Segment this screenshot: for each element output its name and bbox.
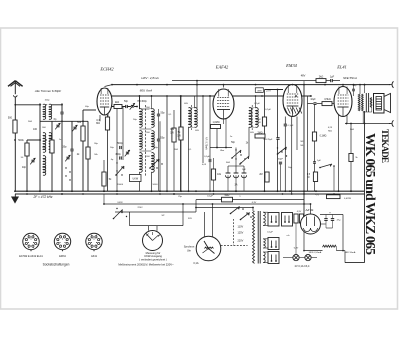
svg-text:EM34: EM34 (285, 63, 298, 68)
svg-text:6,3V: 6,3V (252, 202, 257, 204)
svg-text:1μF: 1μF (242, 169, 246, 171)
svg-text:20000: 20000 (117, 184, 124, 186)
svg-text:0,5kΩ: 0,5kΩ (324, 98, 331, 101)
svg-text:M: M (308, 177, 310, 179)
svg-text:1μF: 1μF (330, 76, 335, 79)
svg-text:-7V: -7V (315, 192, 319, 196)
svg-text:2F = 472 kHz: 2F = 472 kHz (33, 195, 53, 199)
svg-text:UNB: UNB (257, 90, 262, 92)
svg-text:100p: 100p (45, 100, 51, 102)
svg-text:NFE 55mA: NFE 55mA (343, 76, 357, 80)
svg-text:2MΩ: 2MΩ (258, 133, 263, 135)
svg-text:NFF 0,52mA: NFF 0,52mA (309, 251, 322, 254)
svg-text:UKW: UKW (133, 177, 139, 180)
svg-text:Meßinstrument 2000Ω/V, Meßwert: Meßinstrument 2000Ω/V, Meßwerte bei 220V… (118, 263, 174, 267)
svg-text:0,7μF: 0,7μF (265, 109, 271, 111)
svg-text:30V: 30V (188, 218, 192, 220)
svg-text:Synchron: Synchron (184, 246, 195, 249)
svg-text:EL41: EL41 (336, 65, 347, 70)
svg-text:2M: 2M (259, 174, 262, 176)
svg-text:2kΩ: 2kΩ (28, 121, 32, 123)
svg-text:WK 065 und WKZ 065: WK 065 und WKZ 065 (363, 133, 378, 255)
svg-text:48V: 48V (301, 74, 306, 78)
svg-text:2V 0,1A C3,4: 2V 0,1A C3,4 (295, 265, 310, 268)
svg-text:ECH42: ECH42 (99, 67, 114, 72)
svg-text:5kΩ: 5kΩ (226, 162, 230, 164)
svg-text:Alle Trimmer 6-50pF: Alle Trimmer 6-50pF (34, 89, 61, 93)
svg-text:2kΩ: 2kΩ (115, 101, 120, 104)
svg-text:50p: 50p (161, 112, 166, 115)
svg-text:Sockelschaltungen: Sockelschaltungen (43, 263, 70, 267)
svg-text:5000: 5000 (153, 184, 159, 186)
svg-text:0,1μF: 0,1μF (207, 196, 213, 198)
svg-text:500: 500 (8, 117, 13, 120)
svg-text:0,62/W: 0,62/W (344, 198, 352, 200)
svg-text:+: + (329, 211, 331, 215)
svg-text:1,0MΩ: 1,0MΩ (212, 121, 219, 124)
svg-text:MΩ: MΩ (96, 122, 100, 125)
svg-text:2kΩ: 2kΩ (174, 149, 178, 151)
svg-text:125V: 125V (238, 232, 244, 235)
svg-text:50p: 50p (124, 100, 129, 103)
svg-text:110V: 110V (238, 226, 244, 229)
svg-text:( verändert gezeichnet ): ( verändert gezeichnet ) (139, 257, 167, 261)
svg-text:TEKADE: TEKADE (380, 129, 390, 163)
svg-text:MΩ: MΩ (328, 131, 332, 133)
svg-text:AZ41: AZ41 (91, 255, 98, 258)
svg-text:0,1MΩ: 0,1MΩ (320, 136, 327, 138)
svg-text:HB 25pF: HB 25pF (264, 139, 273, 141)
svg-text:0,1μF: 0,1μF (254, 103, 260, 105)
svg-text:6,3V: 6,3V (294, 248, 299, 250)
svg-text:3M: 3M (257, 119, 260, 121)
svg-text:Ukw: Ukw (220, 150, 225, 152)
svg-text:HFF 55mA: HFF 55mA (345, 251, 356, 254)
svg-text:2kΩ: 2kΩ (319, 76, 324, 79)
svg-text:5kΩ: 5kΩ (350, 129, 354, 131)
svg-text:4,5V: 4,5V (297, 211, 302, 213)
svg-text:EM34: EM34 (59, 255, 66, 258)
svg-text:HB 300p: HB 300p (137, 100, 147, 103)
svg-text:10μF: 10μF (310, 99, 316, 101)
svg-text:27V: 27V (266, 89, 271, 93)
svg-text:NF: 0,75mA: NF: 0,75mA (205, 137, 208, 150)
svg-text:AZ 41: AZ 41 (304, 208, 313, 212)
svg-text:HFV : 2,8mA: HFV : 2,8mA (141, 76, 158, 80)
svg-text:40p: 40p (22, 166, 27, 169)
svg-text:500p: 500p (117, 142, 123, 145)
svg-text:1μF: 1μF (317, 160, 321, 162)
svg-text:80V, 6mA: 80V, 6mA (140, 89, 153, 93)
svg-text:500k: 500k (18, 139, 24, 142)
svg-text:0,1μF: 0,1μF (288, 125, 294, 127)
svg-text:220V: 220V (238, 240, 244, 243)
svg-text:300p: 300p (115, 153, 121, 156)
svg-text:50pF: 50pF (278, 159, 284, 161)
svg-text:30p: 30p (63, 146, 68, 149)
svg-text:220V: 220V (137, 207, 143, 209)
svg-text:6kΩ: 6kΩ (225, 193, 230, 197)
svg-text:ECH42 E AF42 EL41: ECH42 E AF42 EL41 (19, 255, 43, 258)
svg-text:0,1A: 0,1A (193, 262, 198, 265)
svg-text:EAF42: EAF42 (215, 65, 229, 70)
svg-text:0,1μF: 0,1μF (204, 156, 210, 158)
svg-text:Uhr: Uhr (187, 250, 191, 253)
svg-text:3A: 3A (235, 184, 238, 187)
svg-text:100: 100 (33, 128, 38, 131)
svg-text:0,1μF: 0,1μF (267, 232, 273, 234)
svg-text:50p: 50p (161, 137, 166, 140)
